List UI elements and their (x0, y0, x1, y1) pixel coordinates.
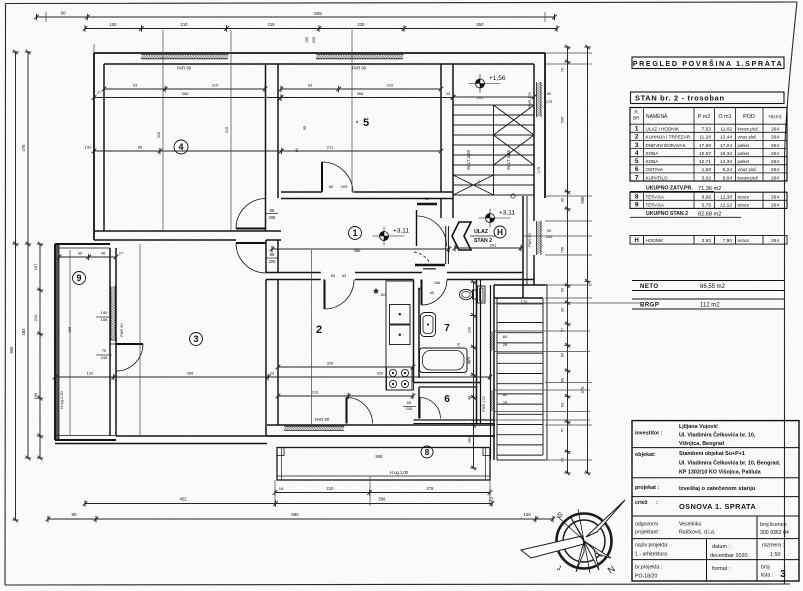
svg-text:PAR 90: PAR 90 (177, 66, 192, 71)
ostava south sill (414, 419, 495, 421)
wall: room4 south wall (94, 230, 281, 232)
svg-text:PAR 90: PAR 90 (315, 417, 330, 422)
svg-text:TERASA: TERASA (646, 203, 665, 208)
kitchen stove (387, 367, 413, 390)
svg-text:+3,11: +3,11 (393, 228, 409, 235)
svg-text:O m1: O m1 (718, 114, 731, 120)
svg-text:475: 475 (21, 144, 26, 152)
dimension line room5 interior (279, 86, 444, 92)
svg-text:63: 63 (342, 273, 347, 278)
svg-text:teraco: teraco (738, 203, 750, 208)
dimension line room3 horizontal (53, 374, 493, 380)
svg-text:SOBA: SOBA (646, 151, 660, 156)
svg-text:17,04: 17,04 (720, 143, 732, 149)
svg-text:155: 155 (101, 317, 108, 322)
svg-text:27: 27 (119, 251, 124, 256)
wall: north exterior wall (94, 52, 545, 54)
svg-text:9: 9 (76, 273, 81, 283)
svg-text:1,59: 1,59 (702, 167, 712, 173)
svg-text:3: 3 (635, 142, 639, 149)
svg-text:201: 201 (477, 95, 484, 100)
svg-text:320: 320 (377, 371, 384, 376)
svg-text:UKUPNO STAN 2: UKUPNO STAN 2 (646, 211, 688, 217)
svg-text:KP 1302/10 KO Višnjica, Palil: KP 1302/10 KO Višnjica, Palilula (679, 470, 762, 476)
svg-text:3,02: 3,02 (702, 175, 712, 181)
dimension line bottom row1 (273, 489, 493, 495)
door D6 ostava (419, 398, 421, 419)
wall: hall east wall (522, 196, 524, 285)
svg-text:420: 420 (157, 132, 161, 138)
svg-text:60: 60 (561, 378, 565, 382)
svg-text:PVR 175: PVR 175 (482, 396, 486, 411)
dimension line room4 interior (102, 86, 268, 92)
svg-text:8: 8 (635, 194, 639, 201)
svg-text:82,68 m2: 82,68 m2 (698, 212, 721, 218)
svg-text:281: 281 (468, 437, 472, 443)
svg-text:9x 17,3/28: 9x 17,3/28 (466, 150, 471, 170)
wall: room3 / room1 east partition (265, 240, 267, 273)
svg-text:1:50: 1:50 (770, 552, 781, 558)
svg-text:17,68: 17,68 (699, 143, 711, 149)
svg-text:6: 6 (635, 166, 639, 173)
svg-text:261: 261 (490, 243, 497, 248)
svg-text:*: * (373, 285, 379, 301)
door D3 room5 (321, 162, 323, 192)
svg-text:1: 1 (635, 126, 639, 133)
svg-text:65: 65 (407, 400, 412, 405)
svg-text:5: 5 (363, 117, 369, 129)
svg-text:60: 60 (503, 334, 508, 339)
svg-text:R.: R. (634, 110, 639, 115)
svg-text:215: 215 (268, 22, 276, 27)
washbasin (421, 313, 436, 337)
svg-text:161: 161 (380, 293, 386, 297)
stair walk line (511, 194, 515, 198)
svg-text::: : (656, 500, 658, 506)
window PAR90 north wall room5 (316, 55, 404, 59)
svg-text:2: 2 (635, 134, 639, 141)
dimension line left colB (25, 50, 31, 461)
room label H (494, 226, 506, 238)
svg-text:broj licence:: broj licence: (760, 522, 788, 528)
dimension line right col2 (584, 45, 590, 476)
svg-text:11,28: 11,28 (699, 135, 711, 141)
hall to stair landing wall (494, 284, 547, 286)
svg-text:NETO: NETO (640, 284, 659, 290)
dimension line bottom row2 (83, 500, 495, 506)
svg-text:483: 483 (21, 328, 26, 336)
svg-text:+3,11: +3,11 (499, 210, 515, 217)
svg-text:27: 27 (97, 91, 101, 95)
table: STAN br2 box (631, 92, 785, 104)
svg-text:+1,56: +1,56 (489, 75, 506, 82)
svg-text:86: 86 (270, 252, 275, 257)
svg-text:decembar 2020.: decembar 2020. (710, 553, 749, 559)
wall: room3 west wall window PAR90 (109, 248, 111, 436)
svg-text:60: 60 (547, 91, 552, 96)
svg-text:Ul. Vladimira Čelkovića br. 10: Ul. Vladimira Čelkovića br. 10, Beograd, (679, 460, 781, 467)
svg-text:235: 235 (546, 234, 553, 239)
svg-text:keram.ploč: keram.ploč (738, 127, 758, 132)
svg-text:264: 264 (771, 159, 779, 165)
svg-text:300 9362 04: 300 9362 04 (760, 530, 789, 536)
svg-text:1: 1 (352, 228, 357, 238)
svg-text:16,34: 16,34 (720, 151, 732, 157)
svg-text:264: 264 (771, 175, 779, 181)
svg-text:356: 356 (187, 371, 194, 376)
svg-text:ULAZ I HODNIK: ULAZ I HODNIK (646, 127, 680, 132)
svg-text:595: 595 (291, 512, 299, 517)
svg-text:PAR 90: PAR 90 (352, 66, 367, 71)
svg-text:211: 211 (327, 145, 334, 150)
svg-text:teraco: teraco (738, 238, 750, 243)
svg-text:315: 315 (225, 127, 229, 133)
svg-text:605: 605 (314, 11, 322, 16)
compass north arrow (521, 500, 625, 573)
svg-text:326: 326 (327, 361, 334, 366)
svg-text:1 - arhitektura: 1 - arhitektura (635, 552, 667, 558)
svg-text:210: 210 (212, 83, 219, 88)
window PAR90 north wall room4 (141, 55, 229, 59)
svg-text:595: 595 (580, 196, 585, 204)
svg-text:210: 210 (312, 390, 319, 395)
svg-text:11,02: 11,02 (720, 127, 732, 133)
toilet (460, 289, 473, 299)
svg-text:210: 210 (327, 486, 335, 491)
door D1 room4 (236, 228, 266, 230)
svg-text:Veselinka: Veselinka (679, 522, 701, 528)
NETO line (632, 280, 784, 282)
wall: kitchen south exterior (267, 424, 495, 426)
door D4 kitchen entry (324, 280, 326, 310)
svg-text:150: 150 (305, 37, 309, 43)
svg-text:65: 65 (418, 287, 422, 291)
svg-text:506: 506 (379, 497, 387, 502)
svg-text:OSNOVA 1. SPRATA: OSNOVA 1. SPRATA (679, 502, 756, 511)
wall: bath east wall (476, 280, 478, 425)
shower cabin (478, 286, 486, 303)
svg-text:264: 264 (771, 135, 779, 141)
svg-text:STAN br. 2 - trosoban: STAN br. 2 - trosoban (635, 94, 725, 103)
svg-text:parket: parket (738, 151, 750, 156)
wall: kitchen / bath partition (413, 280, 415, 383)
svg-text:57: 57 (561, 328, 565, 332)
svg-text:40: 40 (101, 251, 106, 256)
table: area table (630, 108, 787, 182)
table: H hodnik row (630, 236, 787, 245)
svg-text:projekat :: projekat : (635, 485, 659, 491)
svg-text:3,80: 3,80 (702, 238, 712, 244)
room label 1 (349, 227, 362, 240)
table: terasa rows 8 9 (630, 192, 787, 208)
door D9 kitchen to terrace (346, 398, 348, 424)
svg-text:Stambeni objekat Su+P+1: Stambeni objekat Su+P+1 (679, 451, 745, 457)
dimension line rooms mid horizontal (92, 148, 444, 154)
svg-text:506: 506 (376, 454, 384, 459)
svg-text:Raičković, d.i.a.: Raičković, d.i.a. (679, 530, 715, 536)
wall: bath south (414, 382, 481, 384)
svg-text:366: 366 (357, 91, 364, 96)
svg-text:264: 264 (771, 127, 779, 133)
svg-text:80: 80 (295, 148, 299, 152)
ostava walls (418, 387, 420, 419)
svg-text:KUHINJA I TRPEZAR.: KUHINJA I TRPEZAR. (646, 135, 692, 140)
svg-text:naziv projekta:: naziv projekta: (635, 543, 668, 549)
door D2 room3 north (236, 242, 266, 244)
svg-text:OSTAVA: OSTAVA (646, 167, 665, 172)
svg-text:Ul. Vladimira Čelkovića br. 10: Ul. Vladimira Čelkovića br. 10, (679, 432, 756, 439)
room label 4 (174, 140, 188, 154)
wall: room5 south wall (281, 191, 322, 193)
wall: east screen wall with windows (490, 285, 492, 460)
kitchen sink unit (390, 305, 411, 325)
svg-text:175: 175 (546, 100, 552, 104)
svg-text:112 m2: 112 m2 (700, 303, 720, 309)
svg-text:175: 175 (537, 167, 541, 173)
svg-text:vinaz ploč.: vinaz ploč. (738, 135, 758, 140)
svg-text:2: 2 (316, 324, 322, 336)
svg-text:75: 75 (457, 343, 461, 347)
title block frame (632, 421, 799, 581)
svg-text:264: 264 (771, 143, 779, 149)
svg-text:9: 9 (635, 202, 639, 209)
terrace 8 outline (277, 448, 490, 481)
kitchen counter (386, 281, 414, 390)
svg-text:465: 465 (67, 326, 72, 333)
svg-text:170: 170 (467, 357, 471, 363)
svg-text:br.projekta :: br.projekta : (635, 565, 662, 571)
svg-text:6,24: 6,24 (723, 167, 733, 173)
svg-text:100: 100 (85, 145, 92, 150)
wall: hall south / room1 south wall (266, 272, 321, 274)
svg-text:47: 47 (561, 428, 565, 432)
room label 9 (73, 272, 86, 285)
svg-text:140: 140 (101, 310, 108, 315)
svg-text:264: 264 (771, 151, 779, 157)
svg-text:60: 60 (503, 392, 508, 397)
svg-text:NAMENA: NAMENA (646, 114, 668, 120)
svg-text:550: 550 (477, 22, 485, 27)
terrace9 rail west (55, 244, 59, 440)
svg-text:52: 52 (425, 197, 429, 201)
svg-text:230: 230 (358, 22, 366, 27)
svg-text:95: 95 (303, 126, 307, 130)
svg-text:DNEVNI BORAVAK: DNEVNI BORAVAK (646, 143, 687, 148)
svg-text:lista :: lista : (761, 573, 773, 579)
svg-text:7,53: 7,53 (702, 127, 712, 133)
svg-text:8: 8 (425, 448, 430, 457)
svg-text:12,71: 12,71 (699, 159, 711, 165)
door D5 bath corridor entry (421, 280, 423, 306)
svg-text:objekat:: objekat: (635, 452, 656, 458)
svg-text:60: 60 (331, 273, 336, 278)
wall: room4/room5 partition (265, 64, 267, 231)
svg-text:razmera :: razmera : (762, 543, 784, 549)
svg-text:96: 96 (468, 396, 472, 400)
door D8 room1 to hall (416, 210, 418, 246)
svg-text:investitor :: investitor : (635, 431, 663, 437)
svg-text:205: 205 (269, 259, 277, 264)
svg-text:format :: format : (712, 566, 730, 572)
dimension line left colC (37, 242, 43, 461)
svg-text:vinaz ploč.: vinaz ploč. (738, 167, 758, 172)
svg-text:H: H (635, 238, 639, 244)
dimension line bottom row3 (46, 516, 556, 522)
svg-text:H: H (497, 228, 503, 237)
svg-text:teraco: teraco (738, 195, 750, 200)
svg-text:187: 187 (33, 263, 38, 270)
svg-text:HODNIK: HODNIK (646, 238, 665, 243)
level mark +3,11 room1 (373, 227, 405, 246)
svg-text:90: 90 (561, 288, 565, 292)
level mark +1,56 (469, 74, 501, 93)
dimension line left colA (12, 50, 18, 523)
svg-text:120: 120 (523, 512, 531, 517)
svg-text:parket: parket (738, 159, 750, 164)
svg-text:13,44: 13,44 (720, 135, 732, 141)
svg-text:90: 90 (78, 251, 83, 256)
svg-text:271: 271 (477, 180, 481, 186)
svg-text:27: 27 (489, 497, 494, 502)
dashed door arc room1 (414, 252, 431, 266)
window PVR175 east wall stair (537, 82, 542, 117)
svg-text:70: 70 (561, 68, 565, 72)
wall: hall west thin partition (445, 226, 447, 264)
svg-text:broj: broj (761, 565, 770, 571)
niche bar room1 east (415, 264, 445, 267)
wall: west exterior wall room4 (93, 53, 95, 240)
svg-text:H(cm): H(cm) (768, 114, 781, 120)
staircase interior (453, 105, 534, 195)
svg-text:366: 366 (182, 91, 189, 96)
svg-text:H.og.1,00: H.og.1,00 (59, 391, 64, 409)
svg-text:70: 70 (102, 348, 107, 353)
svg-text:80: 80 (329, 184, 334, 189)
entry arrow ULAZ STAN 2 (452, 222, 471, 250)
svg-text:210: 210 (387, 83, 394, 88)
extension lines horizontal to right dims (494, 53, 640, 460)
svg-text:93: 93 (308, 83, 313, 88)
svg-text:205: 205 (269, 215, 277, 220)
svg-text:93: 93 (133, 83, 138, 88)
svg-text:odgovorni: odgovorni (635, 522, 658, 528)
svg-text:86,55 m2: 86,55 m2 (700, 284, 726, 290)
svg-text:12,12: 12,12 (720, 203, 732, 209)
room label 8 (421, 446, 433, 458)
wall: stairwell west wall (440, 64, 442, 192)
dimension line top row2 (83, 25, 560, 31)
svg-text:63: 63 (561, 403, 565, 407)
svg-text:PAR 90: PAR 90 (527, 232, 532, 246)
svg-text:ULAZ: ULAZ (474, 229, 489, 235)
svg-text:205: 205 (341, 184, 348, 189)
svg-text:5,75: 5,75 (702, 203, 712, 209)
svg-text:PO-18/20: PO-18/20 (635, 574, 657, 580)
svg-text:64: 64 (561, 353, 565, 357)
svg-text:166: 166 (33, 392, 38, 399)
svg-text:3: 3 (193, 334, 198, 344)
dimension line east inner col (470, 280, 476, 471)
svg-text:210: 210 (181, 22, 189, 27)
svg-text:TERASA: TERASA (646, 195, 665, 200)
svg-text:5: 5 (635, 158, 639, 165)
svg-text:6: 6 (444, 394, 450, 405)
BRGP line (632, 298, 784, 300)
svg-text:UKUPNO ZATV.PR.: UKUPNO ZATV.PR. (646, 186, 693, 192)
svg-text:595: 595 (561, 117, 565, 123)
svg-text:278: 278 (427, 486, 435, 491)
svg-text:7: 7 (635, 174, 639, 181)
bathtub (420, 348, 468, 373)
svg-text:452: 452 (180, 497, 188, 502)
svg-text:P m2: P m2 (698, 114, 710, 120)
dimension line room2 horizontal (276, 364, 416, 370)
svg-text:BRGP: BRGP (640, 303, 659, 309)
svg-text:30: 30 (561, 308, 565, 312)
wall: hall south block east (522, 285, 524, 298)
svg-text:PAR 90: PAR 90 (119, 322, 124, 336)
svg-text:85: 85 (138, 145, 143, 150)
svg-text:264: 264 (771, 167, 779, 173)
terrace9 top dims (57, 254, 119, 260)
svg-text:parket: parket (738, 143, 750, 148)
svg-text:Višnjica, Beograd: Višnjica, Beograd (679, 441, 724, 447)
window PAR90 kitchen south (284, 426, 344, 430)
svg-text:BR.: BR. (633, 116, 641, 121)
svg-text:8,04: 8,04 (723, 175, 733, 181)
room label 3 (190, 333, 203, 346)
svg-text:KUPATILO: KUPATILO (646, 175, 668, 180)
svg-text:965: 965 (9, 346, 14, 354)
svg-text:264: 264 (771, 195, 779, 201)
window PAR90 hall east (537, 221, 542, 255)
svg-text:9x 17,3/28: 9x 17,3/28 (506, 150, 511, 170)
svg-text:H.og.1,00: H.og.1,00 (390, 470, 409, 475)
svg-text:POD: POD (743, 114, 755, 120)
svg-text:29: 29 (270, 372, 274, 376)
svg-text:200: 200 (312, 37, 316, 43)
door D7 room9 to room3 (116, 343, 143, 345)
svg-text:SOBA: SOBA (646, 159, 660, 164)
svg-text:166: 166 (434, 281, 440, 285)
svg-text:10,67: 10,67 (699, 151, 711, 157)
svg-text:90: 90 (547, 228, 552, 233)
svg-text:264: 264 (771, 203, 779, 209)
extension lines vertical through rooms (46, 12, 545, 506)
wall: room3 south exterior (55, 443, 267, 445)
svg-text:756: 756 (561, 247, 565, 253)
svg-text:86: 86 (270, 208, 275, 213)
svg-text:7,90: 7,90 (723, 238, 733, 244)
svg-text:Ljiljana Vujović: Ljiljana Vujović (679, 424, 718, 430)
svg-text:29: 29 (446, 92, 450, 96)
svg-text:crtež: crtež (635, 500, 648, 506)
lintel bar above hall door (417, 203, 437, 205)
svg-text:100: 100 (110, 22, 118, 27)
svg-text:120: 120 (87, 371, 94, 376)
svg-text:90: 90 (60, 11, 66, 16)
svg-text:4: 4 (635, 150, 639, 157)
outdoor staircase east (497, 285, 547, 460)
svg-text:7: 7 (444, 323, 450, 334)
svg-text:230: 230 (468, 327, 472, 333)
table: PREGLED POVRSINA header box (632, 57, 784, 69)
dimension line top row1 (34, 14, 557, 20)
svg-text:PREGLED POVRŠINA 1.SPRATA: PREGLED POVRŠINA 1.SPRATA (633, 59, 784, 68)
svg-text:90: 90 (561, 198, 565, 202)
svg-text:14,34: 14,34 (720, 159, 732, 165)
svg-text:3: 3 (780, 569, 786, 580)
